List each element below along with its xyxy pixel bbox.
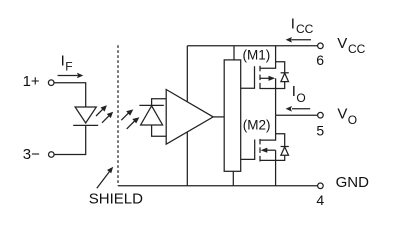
pin 4 terminal: [318, 183, 324, 189]
svg-text:CC: CC: [296, 22, 314, 36]
svg-text:3−: 3−: [23, 146, 40, 163]
M1 drain tap to VCC: [260, 46, 276, 68]
M2 body diode: [276, 134, 285, 147]
photodiode incoming light arrow 1: [121, 113, 129, 121]
stub driver bottom to GND rail: [232, 171, 234, 186]
amp power vertical: [186, 46, 188, 186]
M2 source tap to GND: [260, 160, 276, 185]
M1 body arrow: [260, 77, 270, 79]
svg-text:O: O: [348, 113, 357, 127]
shield dashed line: [117, 45, 119, 186]
M2 body arrow: [267, 149, 276, 151]
svg-text:4: 4: [316, 192, 324, 208]
svg-text:(M2): (M2): [243, 118, 271, 133]
driver block: [224, 60, 241, 171]
arrow IO: [292, 108, 310, 110]
photodiode PD1 cathode bar: [139, 104, 163, 106]
M2 channel: [259, 139, 261, 145]
svg-text:F: F: [65, 59, 72, 73]
photodiode incoming light arrow 2: [127, 121, 135, 129]
stub driver top to VCC rail: [233, 46, 235, 60]
M1 channel: [259, 66, 261, 72]
VCC rail: [187, 45, 317, 47]
svg-text:GND: GND: [336, 174, 370, 191]
wire amp out to driver: [213, 116, 224, 118]
pin 3 terminal: [49, 152, 55, 158]
wire LED cathode to pin 3: [54, 125, 86, 154]
LED emission arrow 2: [102, 115, 110, 123]
svg-text:V: V: [337, 35, 347, 52]
wire pin1 to LED anode: [54, 83, 86, 107]
M1 body diode: [276, 62, 285, 73]
svg-text:6: 6: [316, 52, 324, 68]
GND rail: [118, 185, 318, 187]
svg-text:V: V: [337, 106, 347, 123]
transistor M2 gate: [241, 140, 255, 160]
svg-text:CC: CC: [348, 42, 366, 56]
svg-text:1+: 1+: [23, 73, 40, 90]
wire output to pin 5: [276, 114, 318, 116]
svg-text:(M1): (M1): [243, 48, 271, 63]
LED emission arrow 1: [96, 109, 103, 116]
shield pointer arrow: [97, 171, 110, 188]
svg-text:I: I: [291, 15, 295, 32]
svg-text:5: 5: [316, 123, 324, 139]
arrow ICC: [291, 39, 311, 41]
svg-text:I: I: [61, 53, 65, 70]
wire PD cathode to amp: [152, 99, 167, 106]
svg-text:O: O: [296, 91, 305, 105]
amplifier U1: [166, 90, 213, 145]
pin 5 terminal: [318, 112, 324, 118]
wire PD anode to amp: [152, 125, 167, 136]
M1 source tap to output: [260, 89, 276, 116]
LED D1: [75, 107, 96, 123]
arrow IF: [58, 75, 78, 77]
M2 drain tap to output: [260, 115, 276, 140]
pin 1 terminal: [48, 80, 54, 86]
pin 6 terminal: [318, 43, 324, 49]
svg-text:SHIELD: SHIELD: [89, 190, 143, 207]
photodiode PD1 triangle: [141, 106, 163, 125]
svg-text:I: I: [292, 83, 296, 100]
transistor M1 gate: [241, 66, 255, 88]
